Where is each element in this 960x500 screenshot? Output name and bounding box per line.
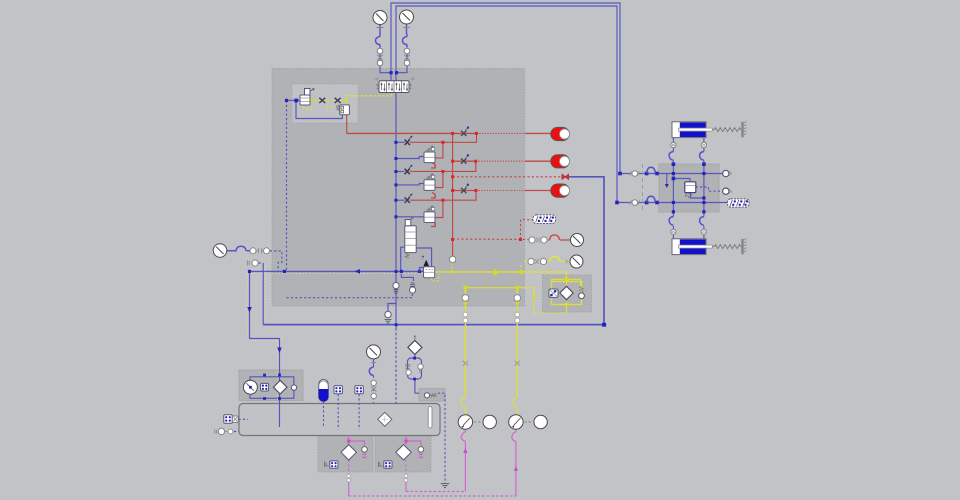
accumulator 1 [551, 127, 570, 140]
right manifold panel [659, 164, 719, 212]
wire blue branch block1 [396, 157, 424, 159]
tank level gauge [428, 406, 432, 428]
coupler bead line B left [630, 196, 655, 205]
subpanel relief valve block [336, 105, 349, 115]
pressure reducing block 1 [424, 146, 435, 163]
wire red bottom run to chain [453, 238, 529, 241]
mid gauge above tank [367, 345, 381, 359]
filter panel right [543, 275, 592, 312]
pump group 2 [509, 415, 548, 429]
accumulator 3 [551, 184, 570, 197]
tank internal diamond [378, 412, 392, 426]
wire accu stem [323, 402, 325, 428]
arrow yellow down1 [463, 302, 467, 307]
port circle red column [449, 256, 455, 262]
accumulator 2 [551, 155, 570, 168]
wire bottom bus long riser right [515, 441, 517, 496]
wire accumulator3 line [453, 190, 476, 192]
wire yellow riser to chain dotted [520, 264, 522, 272]
wire bottom cylinder stems [673, 212, 704, 239]
bottom motor box 2 [379, 461, 393, 468]
wire manifold block top elbow [673, 179, 690, 182]
wire manifold line A inside panel to port [656, 173, 723, 175]
suction diamond filter [408, 336, 422, 355]
wire manifold inner left stub [666, 174, 668, 185]
wire pump feeder right [516, 288, 518, 398]
gauge red right [571, 234, 584, 247]
wire bottom bus short vertical left [405, 481, 407, 491]
wire yellow main bus [434, 271, 566, 273]
left gauge PG3 [213, 244, 231, 258]
shutoff X valve row3 [405, 194, 413, 203]
wire tank to diamond2 [405, 436, 407, 445]
arrow yellow down2 [515, 302, 519, 307]
wire diamond filter column [414, 354, 416, 393]
wire bottom bus long vertical left [348, 481, 350, 496]
tank drain symbol blue line [441, 484, 449, 488]
wire port circle drop dotted [451, 263, 453, 272]
pressure reducing block 3 [424, 206, 435, 223]
red chain circles [529, 235, 560, 243]
left tank chain [215, 428, 233, 434]
wire filter inner split [552, 280, 581, 289]
wire drain hook block3 [431, 221, 435, 226]
shutoff valve acc2 [461, 154, 469, 163]
wire manifold panel vertical 2 [703, 164, 705, 212]
wire row2 link [410, 161, 476, 171]
filter panel internals [549, 282, 584, 305]
wire drain dotted horizontal [287, 293, 413, 298]
gauge PG1 top [373, 11, 387, 35]
wire top outer loop to right manifold line A [391, 3, 656, 174]
shutoff X valve row1 [405, 136, 413, 145]
left chain arc coupler [231, 246, 250, 251]
port circle A [723, 170, 731, 176]
manifold valve block [685, 182, 696, 198]
wire check2 feed [401, 271, 413, 281]
wire yellow chain to gauge [524, 261, 570, 263]
wire bottom bus long horizontal [349, 495, 516, 497]
wire relief stack right elbow [416, 248, 431, 267]
wire pump feeder left [464, 288, 466, 398]
arrow left drop down2 [277, 348, 282, 354]
ARROWS on lines [247, 184, 669, 471]
arrow magenta up1 [463, 448, 467, 453]
coupler bead line A left [630, 167, 655, 176]
wire filter outlet [566, 305, 568, 314]
wire left tank chain dashed [234, 431, 239, 433]
wire red port stub [452, 239, 454, 256]
wire block2 output riser [435, 171, 443, 187]
gauge yellow right [570, 255, 583, 268]
wire pilot curl under block1 [303, 106, 312, 110]
relief stack valve [405, 217, 416, 258]
bypass relief loop [405, 357, 423, 381]
wire diamond1 bypass elbow [349, 441, 365, 447]
node magenta junctions [347, 440, 407, 443]
wire subpanel return loop [296, 100, 342, 118]
subpanel cross plug 1 [319, 98, 325, 103]
left chain2 port [248, 260, 259, 266]
coupler hook chain gauge1 [375, 34, 380, 60]
wire center main vertical [395, 93, 397, 329]
drain tank glyph under circle [385, 320, 391, 323]
port circle B [723, 188, 731, 194]
PANELS [239, 69, 719, 473]
wire red connector dotted [521, 220, 534, 240]
bottom motor box 1 [325, 461, 339, 468]
striped connector mid [533, 215, 556, 224]
main hydraulic manifold panel [272, 69, 525, 307]
wire drain hook block2 [431, 193, 435, 198]
wire row1 link [410, 133, 477, 142]
BLUE WIRES [234, 3, 727, 483]
reservoir tank [239, 404, 440, 436]
dashed boundary line vertical [642, 164, 644, 212]
subpanel pump block [300, 89, 314, 106]
wire diamond1 drain dashed [348, 460, 350, 482]
wire mid chain stem2 [373, 376, 375, 404]
arrow yellow header down [532, 296, 536, 301]
wire pump2 hook magenta [512, 430, 516, 442]
wire subpanel feed horizontal [287, 99, 301, 101]
wire gauge1 elbow [380, 66, 391, 73]
wire gauge mid stem [373, 358, 375, 367]
coupler hook chain gauge2 [402, 34, 407, 60]
arrow magenta up2 [514, 466, 518, 471]
wire pump header [465, 288, 533, 314]
MAGENTA WIRES [349, 430, 516, 497]
wire top inner loop to right manifold line B [396, 6, 656, 203]
mid chain hook [369, 367, 373, 375]
wire red chain to gauge [548, 239, 570, 241]
sensor box 1 [334, 386, 342, 394]
wire suction riser dotted [262, 263, 264, 325]
wire blue branch row X3 [396, 199, 405, 201]
wire blue branch block3 [396, 216, 424, 218]
gauge PG2 top [400, 10, 414, 34]
COMPONENTS [300, 10, 570, 223]
wire relief stack left drop [401, 247, 405, 271]
top cylinder [672, 122, 747, 138]
mid chain circles [371, 380, 376, 385]
pump panel left internals [243, 374, 296, 400]
wire pump1 hook magenta [461, 430, 465, 442]
wire block1 output riser [435, 142, 443, 158]
COMPONENTS PART 3 : bottom / tank / right [215, 320, 449, 488]
wire accumulator1 line [347, 132, 477, 134]
wire pilot down to block2 [346, 100, 348, 105]
wire bus return main [250, 270, 435, 272]
wire left sensor link dashed [239, 418, 249, 420]
wire pump hooks [461, 397, 517, 414]
blue accumulator bladder [319, 380, 329, 402]
subpanel cross plug 2 [335, 98, 341, 103]
pilot operated valve box [420, 255, 435, 277]
arrow manifold stub [665, 184, 669, 188]
arrow bus left [355, 269, 361, 274]
sub panel pilot supply [292, 84, 358, 123]
YELLOW WIRES [303, 93, 581, 415]
wire pilot dashed bus in subpanel [310, 99, 346, 101]
wire bottom bus short horizontal [406, 491, 466, 493]
wire tank to diamond1 [348, 436, 350, 445]
pressure reducing block 2 [424, 174, 435, 191]
wire diamond2 drain dashed [405, 460, 407, 482]
pump group 1 [458, 415, 496, 429]
wire top cylinder stems [673, 138, 704, 164]
relief to tank mini [424, 393, 436, 398]
node yellow junctions [311, 99, 569, 306]
wire manifold panel vertical 1 [672, 164, 674, 212]
relief panel right of tank [419, 389, 445, 402]
check valve 2 [410, 283, 416, 293]
wire row3 link [410, 191, 476, 201]
yellow feeder chain components [462, 295, 520, 366]
highlight halo dots along return lines [247, 179, 606, 401]
wire subpanel left drop dotted [286, 100, 288, 271]
wire accumulator2 line [453, 160, 476, 162]
bottom filter diamond 2 [396, 445, 424, 482]
wire manifold block bottom elbow [691, 192, 704, 198]
wire lower long bus [263, 177, 604, 325]
wire left gauge chain1 dotted [270, 251, 282, 271]
bottom cylinder [672, 239, 747, 255]
wire blue branch row X1 [396, 141, 405, 143]
wire block3 output riser [435, 200, 443, 217]
wire filter drop from bus [566, 272, 568, 280]
wire pilot stub left of block2 [326, 106, 334, 108]
wire blue branch row X2 [396, 171, 405, 173]
pump panel left [239, 370, 303, 401]
check valve 1 [393, 282, 399, 293]
left tank sensor boxes [224, 415, 238, 423]
wire dotted drain line to tank symbol [438, 393, 445, 483]
wire manifold line B inside panel to connector [656, 202, 727, 204]
wire red test line dotted [453, 176, 562, 178]
wire diamond-relief link [415, 392, 419, 394]
wire pilot block2 output drop [346, 115, 348, 134]
wire box stems into tank [338, 394, 359, 430]
sensor box 2 [355, 386, 363, 394]
wire pump panel loop top [250, 377, 294, 385]
shutoff X valve row2 [405, 165, 413, 174]
wire blue branch block2 [396, 184, 424, 185]
arrow left drop down [247, 307, 252, 313]
wire left drop to tank [250, 271, 280, 427]
wire pilot riser to valve [347, 93, 392, 101]
wire filter return dashed [534, 312, 567, 314]
wire bottom bus short riser right [464, 441, 466, 491]
wire drain hook block1 [431, 163, 435, 168]
red shutoff valve test line [562, 174, 569, 179]
shutoff valve acc3 [461, 184, 469, 193]
wire left gauge chain2 dotted [259, 262, 264, 264]
wire drain branch to tank glyph [388, 304, 396, 312]
wire pump panel loop bottom [250, 390, 294, 399]
wire gauge2 elbow [397, 66, 408, 73]
node blue junctions [248, 71, 706, 327]
striped connector right [728, 199, 750, 207]
filter panel bottom 1 [318, 436, 373, 473]
wire red main vertical [452, 133, 454, 239]
wire center vertical lower dashed [395, 328, 397, 404]
COMPONENTS PART 2 [213, 215, 584, 429]
drain port circle [385, 311, 392, 323]
wire yellow curl under pilot box [432, 274, 439, 281]
wire diamond2 bypass elbow [406, 441, 421, 446]
directional valve main [375, 78, 415, 93]
RED WIRES [347, 115, 570, 256]
bottom cyl stem beads [669, 217, 706, 235]
COMPONENTS PART 4 : right side cylinders + manifold [630, 122, 749, 255]
bottom filter diamond 1 [341, 445, 367, 482]
shutoff valve acc1 [461, 127, 469, 136]
filter panel bottom 2 [375, 436, 431, 473]
yellow chain circles [528, 257, 560, 265]
node red junctions [441, 132, 522, 241]
top cyl stem beads [669, 142, 706, 160]
wire manifold dotted pilot to port [696, 187, 723, 191]
